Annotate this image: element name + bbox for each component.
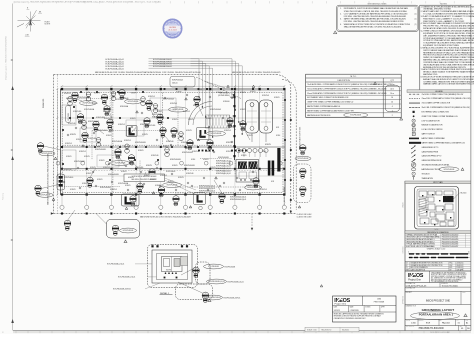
svg-text:J. PEETERS: J. PEETERS <box>350 310 359 312</box>
svg-text:EXOTHERMIC WELD CONNECTION: EXOTHERMIC WELD CONNECTION <box>422 111 450 113</box>
svg-text:ECR-PN-8: ECR-PN-8 <box>64 93 71 95</box>
svg-text:ECR-PN-80: ECR-PN-80 <box>82 183 90 185</box>
svg-text:ECR-PN-8: ECR-PN-8 <box>260 189 267 191</box>
svg-text:ECR-PN-8: ECR-PN-8 <box>216 92 223 94</box>
svg-text:TB: TB <box>121 90 123 92</box>
svg-text:ECR-PN-8: ECR-PN-8 <box>124 140 131 142</box>
svg-text:ECR-PN-80: ECR-PN-80 <box>121 98 129 100</box>
svg-text:LEGEND: LEGEND <box>435 91 443 93</box>
svg-text:TB: TB <box>302 169 304 171</box>
svg-text:TB: TB <box>189 141 191 143</box>
svg-text:TB: TB <box>109 120 111 122</box>
svg-text:ECR-PN-8000B: ECR-PN-8000B <box>444 169 455 171</box>
svg-text:ECR-PN: ECR-PN <box>70 189 75 191</box>
svg-text:7800-8539-TD-800-8491: 7800-8539-TD-800-8491 <box>442 241 459 243</box>
svg-text:ECR-PN: ECR-PN <box>106 135 111 137</box>
svg-text:ECR: ECR <box>426 323 431 325</box>
svg-text:ECR-PN: ECR-PN <box>176 92 181 94</box>
svg-text:ECR-PN: ECR-PN <box>181 142 186 144</box>
svg-text:40 m: 40 m <box>390 88 394 90</box>
svg-text:INEOS: INEOS <box>170 23 175 25</box>
svg-text:ECR-PN: ECR-PN <box>193 105 198 107</box>
svg-text:TB: TB <box>195 268 197 270</box>
svg-text:M.T.O.: M.T.O. <box>351 76 357 78</box>
svg-text:CCTV CAMERA POLE SHALL BE EART: CCTV CAMERA POLE SHALL BE EARTHED AS PER… <box>344 12 408 15</box>
svg-text:7800-8539-TD-800-8490: 7800-8539-TD-800-8490 <box>442 239 459 241</box>
svg-text:ECR-PN: ECR-PN <box>226 142 232 144</box>
svg-text:ECR-PN: ECR-PN <box>150 179 155 181</box>
svg-text:ECR-PN: ECR-PN <box>99 160 104 162</box>
svg-text:ECR-PN-8000B: ECR-PN-8000B <box>211 133 222 135</box>
svg-text:ECR-PN-8: ECR-PN-8 <box>170 103 177 105</box>
svg-text:ECR-PN-8000B: ECR-PN-8000B <box>42 153 53 155</box>
svg-text:WHEN METALLIC STRUCTURES WITH: WHEN METALLIC STRUCTURES WITH CONCRETE F… <box>344 23 411 26</box>
svg-text:2: 2 <box>392 115 393 117</box>
svg-text:TB: TB <box>173 129 175 131</box>
svg-text:ECR-PN: ECR-PN <box>246 185 251 187</box>
svg-text:ECR-PN-8000: ECR-PN-8000 <box>96 117 105 119</box>
svg-text:ECR-PN-8000B: ECR-PN-8000B <box>135 142 146 144</box>
svg-text:TB: TB <box>196 97 198 99</box>
svg-text:FMT: FMT <box>466 320 469 322</box>
svg-text:20: 20 <box>468 251 470 253</box>
svg-text:70x10 MIL COPPER CONDUCTOR (GR: 70x10 MIL COPPER CONDUCTOR (GREEN/4) YEL… <box>422 94 464 96</box>
svg-text:TB: TB <box>148 101 150 103</box>
svg-text:ECR-PN-8: ECR-PN-8 <box>103 167 110 169</box>
svg-text:DESCRIPTION: DESCRIPTION <box>338 80 351 82</box>
svg-text:ECR-PN-8000A-200H-01: ECR-PN-8000A-200H-01 <box>153 65 172 68</box>
svg-text:1386: 1386 <box>377 299 381 301</box>
svg-text:MATCHLINE W-789-300 CONT. ON: MATCHLINE W-789-300 CONT. ON DWG. 7800-8… <box>140 216 191 219</box>
svg-text:FOR DWG. LIGHTING SEE DWG. 780: FOR DWG. LIGHTING SEE DWG. 7800-8539-800… <box>344 15 406 18</box>
svg-text:ECR-PN: ECR-PN <box>178 177 184 179</box>
svg-text:ECR-PN-8000B-L(G)-01: ECR-PN-8000B-L(G)-01 <box>199 191 215 193</box>
svg-text:ECR-PN: ECR-PN <box>76 139 82 141</box>
svg-text:ECR-PN-8000B: ECR-PN-8000B <box>208 266 219 268</box>
svg-text:INEOS PROJECT ONE: INEOS PROJECT ONE <box>426 301 451 303</box>
svg-text:TB: TB <box>209 141 211 143</box>
svg-text:ECR: ECR <box>271 181 274 183</box>
svg-text:ECR-PN-8000B-200H-01: ECR-PN-8000B-200H-01 <box>113 289 131 291</box>
svg-text:TB: TB <box>162 128 164 130</box>
svg-text:EARTH TINNED COPPER BAR 40x6MM: EARTH TINNED COPPER BAR 40x6MM W/INST. L… <box>307 109 354 112</box>
svg-text:ECR-PN: ECR-PN <box>84 156 90 158</box>
svg-text:24/11/23: 24/11/23 <box>334 310 340 312</box>
svg-text:ECR-PN-800: ECR-PN-800 <box>135 167 143 169</box>
svg-text:ECR-PN-8000A-L(G)-01: ECR-PN-8000A-L(G)-01 <box>106 67 124 70</box>
svg-text:ECR-PN: ECR-PN <box>166 270 171 272</box>
svg-text:24.11.2023: 24.11.2023 <box>168 29 176 31</box>
svg-text:ECR-8: ECR-8 <box>191 159 195 161</box>
svg-text:ECR-PN: ECR-PN <box>172 165 177 167</box>
svg-text:ECR-PN-80: ECR-PN-80 <box>68 113 70 121</box>
svg-text:7800-8539-TD-800-8401: 7800-8539-TD-800-8401 <box>442 237 459 239</box>
svg-text:7800-8539-TD-800-8000: 7800-8539-TD-800-8000 <box>442 234 459 236</box>
svg-text:TB: TB <box>302 146 304 148</box>
svg-text:ECR-PN: ECR-PN <box>146 165 152 167</box>
svg-text:ECR-PN-8000B: ECR-PN-8000B <box>184 165 195 167</box>
svg-text:800-8400: 800-8400 <box>342 329 349 331</box>
svg-text:ECR-PN: ECR-PN <box>144 175 150 177</box>
svg-text:7800-8539-TD-800-8497: 7800-8539-TD-800-8497 <box>442 246 459 248</box>
svg-text:35mm2 INSULATED COPPER EARTH C: 35mm2 INSULATED COPPER EARTH CONDUCTOR P… <box>307 92 387 95</box>
svg-text:ECR-PN: ECR-PN <box>90 167 96 169</box>
svg-text:70mm2 INSULATED COPPER EARTH C: 70mm2 INSULATED COPPER EARTH CONDUCTOR P… <box>307 87 387 90</box>
svg-text:ECR-PN-8: ECR-PN-8 <box>148 96 155 98</box>
svg-text:TB: TB <box>84 133 86 135</box>
svg-text:TB: TB <box>255 179 257 181</box>
svg-text:ECR-PN: ECR-PN <box>157 111 162 113</box>
svg-text:ECR-PN: ECR-PN <box>80 120 85 122</box>
svg-text:ECR-PN-800: ECR-PN-800 <box>88 138 96 140</box>
svg-text:ECR-PN: ECR-PN <box>125 185 130 187</box>
svg-text:ECR-8000: ECR-8000 <box>115 155 122 157</box>
svg-text:ECR-PN: ECR-PN <box>250 91 255 93</box>
svg-text:Drawing 1 Layout 1 - 7800-8539: Drawing 1 Layout 1 - 7800-8539-TD-800 GR… <box>5 35 8 80</box>
svg-text:ECR-PN-8: ECR-PN-8 <box>79 151 86 153</box>
svg-text:ECR-PN-8000: ECR-PN-8000 <box>166 171 175 173</box>
svg-text:ECR-PN-8000B: ECR-PN-8000B <box>225 267 236 269</box>
svg-text:ECR-PN-8000B: ECR-PN-8000B <box>40 195 51 197</box>
svg-text:rawings Layout 1 - 7800-8539-T: rawings Layout 1 - 7800-8539-TD-800-8400… <box>14 1 161 4</box>
svg-text:ECR-8: ECR-8 <box>262 151 266 153</box>
svg-text:ECR-PN-80: ECR-PN-80 <box>186 173 194 175</box>
svg-text:(IN THIS DWG.): (IN THIS DWG.) <box>218 95 230 97</box>
svg-text:ECR-PN-8000B: ECR-PN-8000B <box>248 187 259 189</box>
svg-text:1:200: 1:200 <box>411 323 416 325</box>
svg-text:ECR-PN-8000B: ECR-PN-8000B <box>74 161 85 163</box>
svg-text:TB: TB <box>161 188 163 190</box>
svg-text:ECR-PN: ECR-PN <box>240 109 245 111</box>
svg-text:ECR-PN: ECR-PN <box>203 159 208 161</box>
svg-text:ECR-8: ECR-8 <box>230 97 234 99</box>
svg-text:A1: A1 <box>466 322 468 325</box>
svg-text:24: 24 <box>391 102 393 104</box>
svg-text:ECR-PN: ECR-PN <box>206 118 211 120</box>
svg-text:ECR-PN-8000B-L(G)-01: ECR-PN-8000B-L(G)-01 <box>199 186 215 188</box>
svg-text:DETAIL 1: DETAIL 1 <box>160 292 170 295</box>
svg-text:T: T <box>413 173 414 175</box>
svg-text:SIGNED: SIGNED <box>365 306 370 308</box>
svg-text:70x10 ALPE INSUL. COPPER EARTH: 70x10 ALPE INSUL. COPPER EARTH CONDUCTOR… <box>307 83 390 86</box>
svg-text:FIRST ISSUE: FIRST ISSUE <box>374 301 385 303</box>
svg-text:ECR-PN: ECR-PN <box>158 122 163 124</box>
svg-text:ECR-PN-8000B-L(G)-01: ECR-PN-8000B-L(G)-01 <box>228 282 244 284</box>
svg-text:Project One: Project One <box>335 303 347 306</box>
svg-text:ECR-PN-8000B-200H-01: ECR-PN-8000B-200H-01 <box>204 297 221 299</box>
svg-text:ECR-PN-8: ECR-PN-8 <box>192 151 199 153</box>
svg-text:ECR-PN-8000B: ECR-PN-8000B <box>218 157 229 159</box>
svg-text:ECR-PN: ECR-PN <box>70 134 76 136</box>
svg-text:1: 1 <box>392 110 393 112</box>
svg-text:ECR-PN-800: ECR-PN-800 <box>147 125 155 127</box>
svg-text:TB: TB <box>205 293 207 295</box>
svg-text:16: 16 <box>391 97 393 99</box>
svg-text:STEEL 2ND FOR RAIL LOCATION, S: STEEL 2ND FOR RAIL LOCATION, SEE DWG. 78… <box>344 10 407 13</box>
svg-text:INSTRUMENTS, JUNCTION BOXES FR: INSTRUMENTS, JUNCTION BOXES FRAMES SHALL… <box>344 7 409 10</box>
svg-text:ECR-PN: ECR-PN <box>247 135 253 137</box>
svg-text:CHECKED: CHECKED <box>402 247 404 254</box>
svg-text:PLAN UFS: PLAN UFS <box>42 98 45 108</box>
svg-text:TB: TB <box>132 197 134 199</box>
svg-text:ECR-PN: ECR-PN <box>210 167 216 169</box>
svg-text:TB: TB <box>221 194 223 196</box>
svg-text:ECR-PN: ECR-PN <box>188 119 194 121</box>
svg-text:ECR-PN: ECR-PN <box>97 179 102 181</box>
svg-text:ECR-PN-80: ECR-PN-80 <box>68 123 76 125</box>
svg-text:SAFETY SHOWERS SHALL BE EARTHE: SAFETY SHOWERS SHALL BE EARTHED AS PER D… <box>344 18 406 21</box>
svg-text:GROUNDING LAYOUT: GROUNDING LAYOUT <box>422 308 455 312</box>
svg-text:ECR-PN: ECR-PN <box>241 155 246 157</box>
svg-text:4: 4 <box>392 106 393 108</box>
svg-text:FA2-004: FA2-004 <box>442 322 450 325</box>
svg-text:ECR-PN-8: ECR-PN-8 <box>110 189 117 191</box>
svg-text:TB: TB <box>302 187 304 189</box>
svg-text:TB: TB <box>80 115 82 117</box>
svg-text:TB: TB <box>89 178 91 180</box>
svg-text:TB: TB <box>131 156 133 158</box>
svg-text:SHALL BE EARTHED AS PER DETAIL: SHALL BE EARTHED AS PER DETAIL 4 ON DWG … <box>344 25 402 28</box>
svg-text:ECR-PN-800: ECR-PN-800 <box>73 111 81 113</box>
svg-text:SS: SS <box>413 134 415 136</box>
svg-text:ECR-PN: ECR-PN <box>265 144 271 146</box>
svg-text:ECR-PN: ECR-PN <box>163 146 168 148</box>
svg-text:TB: TB <box>117 150 119 152</box>
svg-text:CODE: CODE <box>462 292 466 294</box>
svg-text:TB: TB <box>40 144 42 146</box>
svg-text:ECR-PN-80: ECR-PN-80 <box>166 141 174 143</box>
svg-text:REFERENCE DRAWINGS: REFERENCE DRAWINGS <box>427 231 449 234</box>
svg-text:16 m: 16 m <box>390 93 394 95</box>
svg-text:PROJECT: PROJECT <box>406 292 412 294</box>
svg-text:ECR-PN-8000B: ECR-PN-8000B <box>123 230 134 232</box>
svg-text:ECR-PN-8000B-L(G)-01: ECR-PN-8000B-L(G)-01 <box>118 277 135 279</box>
svg-text:ECR-PN-8: ECR-PN-8 <box>65 143 72 145</box>
svg-text:ECR-PN-8: ECR-PN-8 <box>226 151 233 153</box>
svg-text:ECR-PN: ECR-PN <box>131 93 136 95</box>
svg-text:786-3000: 786-3000 <box>460 193 467 195</box>
svg-text:ECR-PN: ECR-PN <box>66 156 71 158</box>
svg-text:ECR-PN-8000B: ECR-PN-8000B <box>182 152 193 154</box>
svg-text:7800-8539-TD-800-8400: 7800-8539-TD-800-8400 <box>418 328 444 330</box>
svg-text:CONT. ON DWG. 7800-8539-TD-800: CONT. ON DWG. 7800-8539-TD-800-8479 W-78… <box>162 72 201 74</box>
svg-text:ECR-PN: ECR-PN <box>92 103 97 105</box>
svg-text:ECR-PN-8000B: ECR-PN-8000B <box>298 158 309 160</box>
svg-text:TB: TB <box>104 95 106 97</box>
svg-text:KEY PLAN: KEY PLAN <box>433 181 443 184</box>
svg-text:FOR DWG. LIGHTING SEE DWG. 780: FOR DWG. LIGHTING SEE DWG. 7800-8539-800… <box>344 20 405 23</box>
svg-text:ECR-PN-8000B: ECR-PN-8000B <box>108 174 119 176</box>
svg-text:7800-8539-TD-800-8492: 7800-8539-TD-800-8492 <box>442 244 459 246</box>
svg-text:TB: TB <box>229 119 231 121</box>
svg-text:CRIMP TYPE TINNED COPPER TERMI: CRIMP TYPE TINNED COPPER TERMINAL LUG 70… <box>307 101 354 104</box>
svg-text:TB: TB <box>146 119 148 121</box>
svg-text:ECR-PN-8000B-L(G)-01: ECR-PN-8000B-L(G)-01 <box>208 281 224 283</box>
svg-text:1/1: 1/1 <box>458 323 461 325</box>
svg-text:ECR-PN-8: ECR-PN-8 <box>183 111 190 113</box>
svg-text:TB: TB <box>175 197 177 199</box>
svg-text:ECR-PN-8000B: ECR-PN-8000B <box>95 149 106 151</box>
svg-text:ECR-PN-8000B: ECR-PN-8000B <box>100 187 111 189</box>
svg-text:ECR-PN: ECR-PN <box>240 92 246 94</box>
svg-text:ECR-PN-8: ECR-PN-8 <box>160 175 167 177</box>
svg-text:EXOTHERMIC WELD CONNECTOR WOND: EXOTHERMIC WELD CONNECTOR WONDERFLOOR <box>307 97 349 99</box>
svg-text:LC: LC <box>413 129 415 131</box>
svg-text:DESIGN: DESIGN <box>419 320 424 322</box>
svg-text:ECR-8: ECR-8 <box>276 135 280 137</box>
svg-text:ECR-PN-8000: ECR-PN-8000 <box>64 177 73 179</box>
svg-text:ECR-PN-8: ECR-PN-8 <box>224 130 231 132</box>
svg-text:7800-8539-TD: 7800-8539-TD <box>321 329 332 331</box>
svg-text:ECR-PN-8000B-200H-01: ECR-PN-8000B-200H-01 <box>224 298 241 300</box>
svg-text:ECR-PN: ECR-PN <box>274 97 279 99</box>
svg-text:EARTHING ELECTRODE ROD: EARTHING ELECTRODE ROD <box>307 114 331 117</box>
svg-text:ECR-PN-8: ECR-PN-8 <box>104 118 111 120</box>
svg-text:ECR-PN: ECR-PN <box>172 119 177 121</box>
svg-text:ECR-PN-8000: ECR-PN-8000 <box>98 130 107 132</box>
svg-text:ECR-PN: ECR-PN <box>86 173 91 175</box>
svg-text:ECR-PN-8000B: ECR-PN-8000B <box>350 115 361 117</box>
svg-text:EARTH TINNED COPPER BAR 40x6MM: EARTH TINNED COPPER BAR 40x6MM LG <box>307 105 341 108</box>
svg-text:ECR-PN: ECR-PN <box>142 134 148 136</box>
svg-text:ECR-PN-8: ECR-PN-8 <box>262 95 269 97</box>
svg-text:ECR-PN-80: ECR-PN-80 <box>64 169 72 171</box>
svg-text:ECR-PN: ECR-PN <box>138 150 143 152</box>
svg-text:ECR-PN-8000B: ECR-PN-8000B <box>128 101 139 103</box>
svg-text:Project One: Project One <box>408 279 421 282</box>
svg-text:TB: TB <box>74 93 76 95</box>
svg-text:MUST NOT BE COPIED OR REPRODUC: MUST NOT BE COPIED OR REPRODUCED WITHOUT <box>431 274 467 276</box>
svg-text:ECR-PN: ECR-PN <box>186 130 192 132</box>
svg-text:TEST-BOX: TEST-BOX <box>422 173 431 175</box>
svg-text:SH: SH <box>457 320 459 322</box>
svg-text:TB: TB <box>151 170 153 172</box>
svg-text:TB: TB <box>242 122 244 124</box>
svg-text:PORTAALKRAAN AREA 1: PORTAALKRAAN AREA 1 <box>419 313 454 317</box>
svg-text:TB: TB <box>67 221 69 223</box>
svg-text:ECR-PN-8000B: ECR-PN-8000B <box>167 185 178 187</box>
svg-text:2006-01: 2006-01 <box>172 83 178 85</box>
svg-text:NORTH: NORTH <box>45 24 51 26</box>
svg-text:ECR-PN: ECR-PN <box>128 177 134 179</box>
svg-text:WARNING TAPES LAYOUTS CONTINUE: WARNING TAPES LAYOUTS CONTINUE INSTRUMEN… <box>423 83 474 86</box>
svg-text:ECR-PN: ECR-PN <box>205 151 211 153</box>
svg-text:ECR-PN-8000B: ECR-PN-8000B <box>170 159 181 161</box>
svg-text:ECR-PN: ECR-PN <box>130 118 135 120</box>
svg-text:TB: TB <box>115 226 117 228</box>
svg-text:GRAPHIC SCALE 1:200: GRAPHIC SCALE 1:200 <box>427 248 445 251</box>
svg-text:WBS: WBS <box>439 320 442 322</box>
svg-text:ECR-PN-80: ECR-PN-80 <box>151 155 159 157</box>
svg-text:ECR: ECR <box>199 89 202 91</box>
svg-text:ECR-PN: ECR-PN <box>121 171 126 173</box>
svg-text:ECR-PN: ECR-PN <box>168 181 173 183</box>
svg-text:ECR-PN-8: ECR-PN-8 <box>118 124 125 126</box>
svg-text:TB: TB <box>37 186 39 188</box>
svg-text:ECR-8000: ECR-8000 <box>223 101 230 103</box>
svg-text:ECR: ECR <box>276 127 279 129</box>
